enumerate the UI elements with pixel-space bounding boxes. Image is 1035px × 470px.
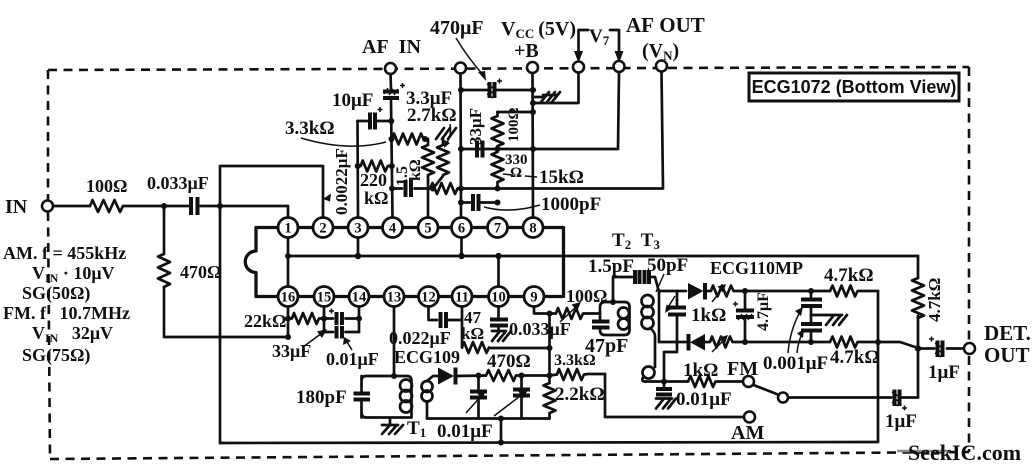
resistor R 3.3k horizontal (392, 134, 427, 145)
wire bus corner to 4.7k right (917, 256, 920, 278)
wire AM line (605, 374, 744, 417)
wire secondary bottom to block rail (426, 402, 429, 419)
node 1000pF ends (458, 200, 464, 206)
terminal IN (42, 201, 53, 212)
node bus at pin3 (355, 253, 361, 259)
wire 470uF branch (461, 89, 533, 92)
svg-text:SeekIC.com: SeekIC.com (908, 440, 1021, 465)
pin 13 (384, 287, 404, 307)
wire Vcc rail to pin 8 (531, 73, 534, 218)
svg-text:0.01μF: 0.01μF (676, 389, 732, 410)
capacitor C 0.001uF lower (810, 306, 813, 324)
svg-text:1μF: 1μF (885, 411, 917, 432)
capacitor C 50pF plates (645, 270, 650, 284)
wire AF IN rail to pin 4 (391, 74, 393, 218)
wire pin6 stub to bus (460, 238, 463, 257)
svg-text:33μF: 33μF (466, 108, 485, 145)
svg-text:2.2kΩ: 2.2kΩ (555, 384, 605, 405)
svg-text:4.7kΩ: 4.7kΩ (824, 265, 874, 286)
capacitor C 0.033uF shunt plates (490, 320, 508, 326)
transformer T1 tank outline (362, 376, 412, 418)
svg-text:7: 7 (494, 221, 501, 237)
node junction at 220,206 (217, 203, 223, 209)
wire pin1-pin16 vertical (287, 238, 290, 287)
ground near Vcc (541, 92, 560, 102)
svg-text:IN: IN (5, 196, 28, 218)
wire 1uF lower to det rail (902, 396, 918, 399)
svg-text:kΩ: kΩ (364, 188, 388, 208)
dashed enclosure border bottom (50, 452, 969, 459)
wire secondary to diode (427, 376, 438, 381)
node det junction (915, 345, 921, 351)
resistor R 22k horizontal (288, 313, 324, 324)
svg-text:ECG1072 (Bottom View): ECG1072 (Bottom View) (752, 77, 957, 97)
terminal AM (744, 412, 755, 423)
node at 3.3k right end (422, 136, 428, 142)
dashed enclosure border right (968, 67, 971, 452)
coil T3 tail loop (643, 367, 655, 379)
wire switch to 1uF lower (788, 396, 891, 399)
svg-text:1: 1 (284, 221, 291, 237)
svg-text:12: 12 (421, 290, 436, 306)
diode D1 ECG110MP top (688, 283, 705, 300)
leader arrow from 470uF label to capacitor (456, 38, 484, 76)
svg-text:0.0022μF: 0.0022μF (332, 148, 351, 215)
pin 6 (452, 218, 472, 238)
svg-text:4: 4 (389, 221, 396, 237)
resistor R 1k bottom (705, 337, 745, 348)
wire pin15 rail down (323, 307, 326, 333)
capacitor C 0.022uF plates (441, 312, 447, 328)
capacitor C 1000pF plates (473, 194, 479, 211)
wire T3 bottom out (659, 341, 686, 344)
wire det to 1uF upper (918, 347, 969, 350)
svg-text:SG(50Ω): SG(50Ω) (22, 283, 90, 304)
wire pin6 rail from terminal (459, 74, 462, 218)
svg-text:14: 14 (352, 290, 367, 306)
svg-text:10μF: 10μF (332, 90, 373, 111)
wire bottom ground rail (220, 442, 878, 443)
resistor R 100 ohm pin9 (550, 308, 601, 319)
resistor R 330 ohm vertical (492, 152, 504, 189)
pin 1 (278, 218, 298, 238)
wire pin14 rail down (358, 307, 361, 333)
node block joins (321, 316, 327, 322)
svg-text:100Ω: 100Ω (506, 107, 522, 142)
svg-text:5: 5 (424, 221, 431, 237)
IC chain segments bottom row (298, 295, 524, 298)
wire pin10 down (497, 307, 500, 318)
svg-text:4.7kΩ: 4.7kΩ (925, 278, 944, 322)
dashed enclosure border top (48, 67, 969, 70)
wire det rail (917, 316, 920, 398)
wire pin9 down and over (534, 307, 550, 314)
capacitor C 0.033uF input plates (191, 197, 198, 215)
node AF rail junctions (388, 118, 394, 124)
pin 10 (489, 287, 509, 307)
pin 5 (418, 218, 438, 238)
svg-text:220: 220 (360, 170, 387, 190)
svg-text:0.01μF: 0.01μF (437, 421, 493, 442)
wire pin11 rail (461, 307, 464, 348)
transformer T3 secondary bar (658, 291, 661, 342)
svg-text:1kΩ: 1kΩ (691, 305, 726, 326)
node 47k to AM rail (547, 345, 553, 351)
wire drop to ground rail (500, 419, 503, 443)
svg-text:ECG109: ECG109 (394, 347, 460, 367)
svg-text:0.01μF: 0.01μF (326, 349, 379, 369)
pin 7 (488, 218, 508, 238)
wire 15k line to AF OUT (458, 72, 663, 189)
svg-text:9: 9 (530, 290, 537, 306)
wire right drop to ground rail (877, 291, 880, 442)
wire top branch (745, 290, 830, 293)
svg-text:AF OUT: AF OUT (626, 13, 705, 37)
capacitor C T3 center plates (676, 291, 679, 305)
node bottom branch junctions (742, 339, 748, 345)
capacitor C 470uF electrolytic (487, 79, 502, 99)
capacitor C 0.0022uF plates (406, 180, 412, 197)
wire 100 ohm top link (498, 111, 534, 114)
leader arrow through 1k bottom (712, 339, 725, 352)
wire block bottom rail (427, 417, 550, 420)
svg-text:10: 10 (491, 290, 506, 306)
ground 0.001uF (826, 315, 847, 325)
ground hatch above 2.7k (436, 128, 456, 139)
wire feedback loop up over to pin 2 (220, 166, 323, 218)
svg-text:15: 15 (317, 290, 332, 306)
wire 470 ohm to pin16 rail (164, 287, 288, 337)
pin 3 (348, 218, 368, 238)
wire pin16 rail down (287, 307, 290, 338)
wire pin12 rail (429, 307, 438, 321)
svg-text:470Ω: 470Ω (180, 262, 221, 282)
capacitor C 33uF plates (477, 141, 483, 158)
leader arrow through 100 ohm (560, 306, 577, 322)
transformer T2 tank outline (600, 302, 630, 335)
coil ECG109 secondary loops (422, 381, 433, 402)
svg-text:T2 T3: T2 T3 (612, 230, 660, 252)
arrow marker on pin2 wire (323, 194, 331, 202)
pin 4 (383, 218, 403, 238)
resistor R 2.7k vertical (433, 138, 449, 189)
capacitor C 0.01uF pin15 plates (337, 326, 343, 339)
svg-text:AF IN: AF IN (362, 36, 421, 58)
svg-text:VIN 32μV: VIN 32μV (32, 323, 113, 345)
wire 1.5pF 50pF link (613, 277, 659, 302)
wire 1000pF line (461, 201, 498, 204)
wire pin3 stub to bus (357, 238, 360, 257)
pin 14 (349, 287, 369, 307)
svg-text:4.7μF: 4.7μF (755, 292, 772, 331)
capacitor C 3.3uF plates (370, 107, 383, 130)
coil T1 loops (400, 380, 412, 413)
svg-text:1000pF: 1000pF (541, 194, 601, 215)
wire T3 top out (659, 290, 686, 293)
svg-text:FM. f 10.7MHz: FM. f 10.7MHz (3, 303, 130, 323)
capacitor C 4.7uF electrolytic (733, 291, 754, 342)
svg-text:0.001μF: 0.001μF (763, 353, 828, 374)
svg-text:33μF: 33μF (272, 341, 311, 361)
svg-text:50pF: 50pF (647, 255, 688, 276)
capacitor C 1.5pF plates (635, 270, 640, 284)
wire long left vertical down to bottom rail (220, 206, 222, 443)
wire 0.022 to pin11 (449, 319, 463, 322)
ground below 0.033uF (492, 331, 511, 341)
svg-text:kΩ: kΩ (461, 324, 484, 343)
leader 1000pF (484, 205, 540, 210)
svg-text:8: 8 (529, 221, 536, 237)
svg-text:0.022μF: 0.022μF (389, 328, 451, 348)
wire cap to pin1 (201, 206, 289, 218)
svg-text:100Ω: 100Ω (86, 176, 127, 196)
pin 9 (524, 287, 544, 307)
resistor R 470 ohm detector (486, 370, 550, 381)
svg-text:11: 11 (455, 290, 469, 306)
terminal V7 a (573, 62, 584, 73)
resistor R 3.3k detector (550, 369, 606, 380)
IC chain segments top row (298, 226, 523, 229)
watermark SeekIC.com (897, 440, 1021, 465)
svg-text:ECG110MP: ECG110MP (710, 258, 803, 278)
wire 3.3uF branch (358, 120, 392, 123)
leader 3.3k to resistor (301, 138, 386, 146)
pin 16 (278, 287, 298, 307)
wire T3 center tap down (664, 315, 677, 382)
svg-text:16: 16 (281, 290, 296, 306)
node 2.7k join (430, 186, 436, 192)
svg-text:AM: AM (731, 422, 764, 444)
svg-text:1.5pF: 1.5pF (588, 256, 634, 277)
node 100/330 junction (495, 146, 501, 152)
svg-text:470Ω: 470Ω (487, 351, 531, 372)
svg-text:0.033μF: 0.033μF (147, 173, 209, 193)
ground T1 (389, 418, 392, 425)
resistor R 1k FM (688, 376, 743, 387)
arrows through trimmer caps (466, 395, 482, 413)
wire internal bus line (288, 255, 918, 258)
svg-text:4.7kΩ: 4.7kΩ (830, 347, 880, 368)
svg-text:3.3kΩ: 3.3kΩ (285, 118, 335, 139)
leader 33uF arrow (303, 333, 322, 347)
capacitor C 1uF lower electrolytic (892, 390, 907, 411)
wire V7b drop and 33uF line (461, 72, 619, 149)
wire 0.01uF row (324, 331, 359, 334)
leader 50pF (656, 274, 664, 292)
svg-text:22kΩ: 22kΩ (244, 311, 286, 331)
terminal AF IN (385, 63, 396, 74)
capacitor C 0.001uF upper (810, 291, 813, 297)
wire IN to resistor (53, 205, 90, 208)
wire V7a drop (533, 73, 579, 104)
resistor R 4.7k bottom (830, 337, 878, 348)
trimmer capacitor C 0.01 a (477, 376, 480, 390)
svg-text:FM: FM (727, 358, 758, 380)
capacitor C 0.01uF FM plates (663, 382, 666, 388)
svg-text:DET.: DET. (984, 321, 1031, 345)
svg-text:OUT: OUT (984, 343, 1030, 367)
terminal Vcc +B (527, 62, 538, 73)
svg-text:470μF: 470μF (430, 17, 484, 39)
resistor R 220k horizontal (358, 161, 392, 172)
svg-text:13: 13 (387, 290, 402, 306)
leader arrows 0.001uF (788, 312, 800, 353)
svg-text:180pF: 180pF (296, 387, 347, 408)
node bus at pin6 (458, 253, 464, 259)
node top branch junctions (742, 288, 748, 294)
leader 2.7k to resistor (446, 124, 451, 144)
svg-text:Ω: Ω (510, 165, 522, 181)
wire T3 tail to FM line (650, 328, 655, 367)
resistor R 100 ohm input (90, 200, 123, 212)
resistor R 2.2k vertical (544, 383, 556, 419)
svg-text:1μF: 1μF (928, 362, 960, 383)
wire resistor to cap 0.033 (123, 205, 188, 208)
trimmer capacitor C 0.01 b (520, 376, 523, 388)
resistor R 1k top (706, 286, 745, 297)
ground 0.01uF FM (656, 399, 676, 409)
node junction at 164,206 (161, 203, 167, 209)
capacitor C 1uF upper electrolytic (929, 337, 943, 358)
svg-text:+B: +B (514, 40, 539, 62)
wire 33uF row (324, 317, 359, 320)
wire pin13 rail to T1 (393, 307, 396, 377)
leader arrow at T3 cap (667, 296, 675, 309)
leader 0.01uF arrow (347, 342, 352, 350)
pin 15 (314, 287, 334, 307)
svg-text:15kΩ: 15kΩ (539, 167, 584, 188)
resistor R 100 ohm vertical (492, 112, 504, 149)
wire pin3 rail (356, 121, 359, 218)
svg-text:VCC (5V): VCC (5V) (501, 18, 576, 41)
wire 470 ohm branch down (163, 206, 166, 254)
svg-text:0.033μF: 0.033μF (509, 319, 571, 339)
wire mid tap to ground (811, 314, 826, 317)
IC outline right wrap pin8 to pin9 (543, 228, 564, 297)
arrow V7 left (574, 51, 583, 63)
wire AM detector rail x549 (548, 314, 551, 384)
wire 0.0022 line y188.5 (392, 187, 430, 190)
capacitor C 33uF bottom plates (337, 312, 343, 325)
node bus at pin10 (495, 253, 501, 259)
svg-text:VIN · 10μV: VIN · 10μV (32, 263, 115, 285)
wire bus stub down to pin10 (497, 256, 500, 287)
coil T2 loops (618, 308, 629, 330)
svg-text:6: 6 (458, 221, 465, 237)
svg-text:47pF: 47pF (585, 335, 628, 357)
diode D2 ECG110MP bottom (689, 334, 706, 351)
svg-text:AM. f = 455kHz: AM. f = 455kHz (3, 243, 126, 263)
switch blade (754, 385, 779, 395)
node junction bottom rail at 501 (498, 440, 504, 446)
leader arrow through 1k top (712, 288, 723, 302)
wire bottom branch (745, 341, 830, 344)
capacitor C 10uF electrolytic on AF IN rail (383, 83, 405, 98)
wire FM line (642, 378, 688, 382)
resistor R 4.7k top (830, 286, 878, 297)
op-amp IC U1 ECG1072 outline left with notch (245, 228, 278, 297)
pin 2 (313, 218, 333, 238)
svg-text:2.7kΩ: 2.7kΩ (407, 105, 457, 126)
terminal AF OUT (656, 61, 667, 72)
node FM line junction (661, 379, 667, 385)
resistor R 15k horizontal (430, 183, 458, 194)
pin 11 (452, 287, 472, 307)
pin 12 (419, 287, 439, 307)
node T2 top (610, 299, 616, 305)
dashed enclosure border left (48, 70, 50, 459)
capacitor C 180pF plates on T1 (354, 394, 371, 400)
resistor R 4.7k right vertical (912, 278, 924, 318)
resistor R 47k horizontal (462, 342, 550, 353)
svg-text:3: 3 (354, 221, 361, 237)
diode D ECG109 (438, 368, 456, 385)
resistor R 1.5k vertical (422, 139, 434, 218)
terminal V7 b (614, 61, 625, 72)
svg-text:SG(75Ω): SG(75Ω) (22, 345, 90, 366)
terminal DET OUT (964, 343, 975, 354)
terminal switch pole (778, 393, 788, 403)
svg-text:2: 2 (319, 221, 326, 237)
terminal FM switch (743, 376, 754, 387)
capacitor C 47pF plates on T2 (592, 322, 610, 328)
arrow V7 right (615, 51, 624, 63)
ECG1072 label box (749, 73, 959, 101)
resistor R 470 ohm vertical (158, 254, 170, 287)
wire diode to 470 (456, 374, 486, 377)
svg-text:kΩ: kΩ (407, 159, 424, 181)
coil T3 primary loops (642, 295, 654, 329)
pin 8 (523, 218, 543, 238)
leader dash-dot 15k (503, 174, 537, 177)
terminal bypass (470uF) (455, 63, 466, 74)
wire ground stub near Vcc (533, 96, 543, 99)
wire bottom branch to det rail (878, 342, 918, 348)
